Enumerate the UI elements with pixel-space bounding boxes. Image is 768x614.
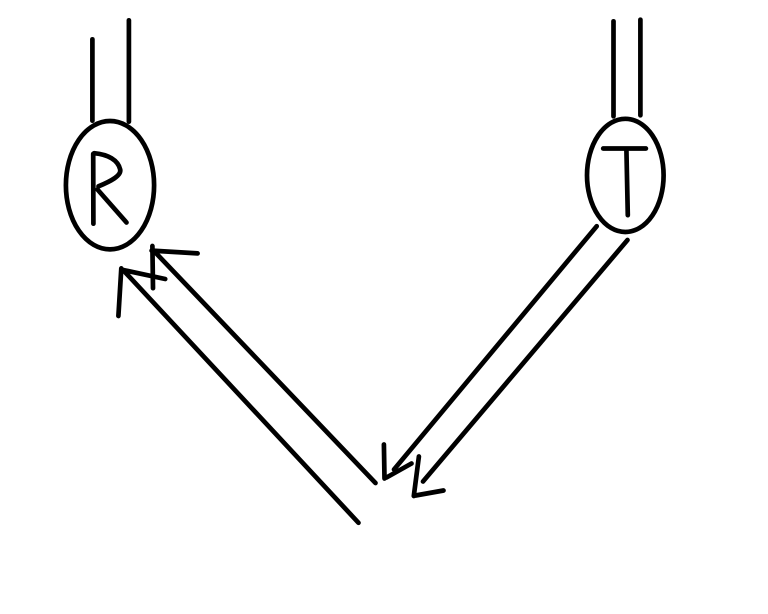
arrowhead at R upper	[152, 246, 198, 288]
wire: right signal shaft from T	[423, 240, 628, 482]
transmitter antenna lead left	[611, 21, 616, 116]
label T	[603, 149, 646, 216]
arrowhead left from T	[384, 445, 412, 479]
receiver antenna lead right	[127, 20, 132, 121]
wire: upper signal shaft into R	[154, 251, 376, 484]
transmitter node T (ellipse)	[587, 119, 664, 232]
receiver node R (ellipse)	[66, 121, 154, 249]
arrowhead right from T	[414, 457, 444, 497]
label R	[93, 153, 126, 224]
transmitter antenna lead right	[638, 20, 643, 116]
receiver antenna lead left	[90, 39, 95, 120]
wire: left signal shaft from T	[394, 226, 597, 469]
wire: lower signal shaft into R	[124, 271, 359, 523]
arrowhead at R lower	[118, 268, 165, 316]
